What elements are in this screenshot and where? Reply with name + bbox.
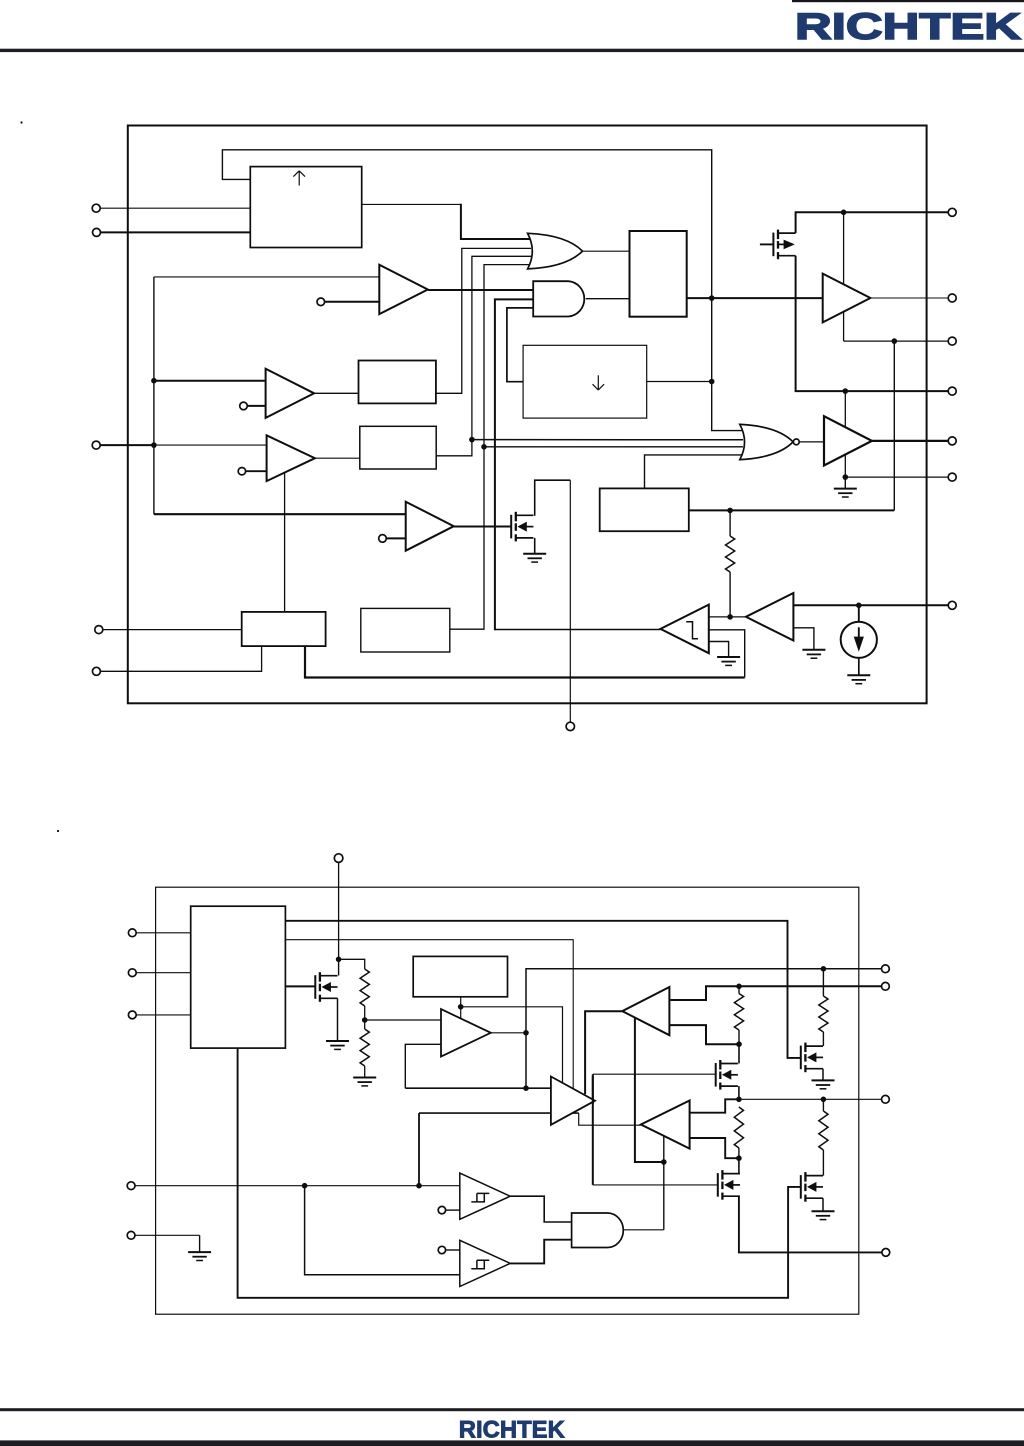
wire AND gate output to latch [586,298,630,300]
resistor R-OC [726,536,735,572]
wire high MOSFET gate lead [593,1073,716,1075]
wire Schmitt output to corner [495,629,661,631]
wire comparator3 to soft-start block [284,473,286,612]
ground current source [847,675,870,683]
node junction divider tap [362,1017,368,1023]
gate AND1 [533,281,584,316]
transistor Q2 bootstrap PMOS switch [773,230,795,260]
wire junction to comparator3 input [154,444,267,446]
wire OVP block output up to AND gate input 3 [507,308,533,382]
terminal bubble S2 inverting [438,1206,445,1213]
wire gate drive node vertical [592,1074,594,1185]
terminal bubble comparator U3 inverting input [238,468,245,475]
transistor Q4 high-side NMOS [716,1060,738,1090]
current source I1 [841,622,877,658]
wire schmitt2 output to AND2 [510,1240,571,1264]
stray mark [20,121,22,123]
wire driver return rail to PHASE terminal [796,256,953,391]
terminal PHASE right 4 [948,387,956,395]
wire control block thick rail to right gate [285,921,800,1058]
footer rule lower [0,1440,1024,1446]
ground Q6 source [822,1069,824,1081]
wire gate node over totem apex [592,1076,594,1104]
svg-text:RICHTEK: RICHTEK [795,5,1021,47]
wire VCC input to UVLO (upper) [100,207,250,209]
wire divider bottom to ground [364,1066,366,1078]
terminal BOOT right d2 1 [882,965,890,973]
wire H2 from node to NOR gate input [484,446,743,448]
terminal OCSET right 7 [948,601,956,609]
wire divider middle [364,1006,366,1029]
ground Q1 source [523,554,546,562]
node junction OCSET current source [856,603,862,609]
wire PWM input terminal line [135,1185,460,1187]
ground divider [353,1078,376,1086]
block OVP with falling arrow [523,345,647,418]
node junction LX [736,1097,742,1103]
ground Q7 source [822,1198,824,1211]
terminal left d2 2 [128,969,136,977]
node junction R4 bottom [736,1155,742,1161]
wire divider tap across [339,959,365,969]
wire opamp B1 output vertical to top rail [526,969,881,1088]
wire OR gate output to latch [583,250,630,252]
transistor Q5 low-side NMOS [718,1170,740,1200]
wire R5 to MOSFET drain [822,1032,824,1046]
block delay 1 [359,361,436,404]
schmitt trigger S3 [460,1240,510,1286]
wire receiver1 output to totem [585,1011,622,1094]
node junction comparator2 input [151,378,157,384]
comparator U4 soft-start [406,502,454,551]
terminal left d2 1 [128,929,136,937]
wire level MOSFET drain node [338,959,340,975]
wire input 2 to UVLO (lower) [101,231,251,233]
wire control inputs left 1 [136,932,191,934]
node junction comparator3 input [151,442,157,448]
transistor Q3 level NMOS [315,972,337,1002]
wire OC set resistor chain top [729,510,731,536]
wire comparator U4 inverting input [386,537,405,539]
wire receiver2 tap lower [690,1138,739,1158]
wire comparator3 output to delay2 [315,457,360,459]
wire bootstrap switch gate lead [760,243,774,245]
ground Schmitt [717,657,740,665]
wire R6 ends [822,1099,824,1111]
node junction VCC divider [336,957,342,963]
gate OR1 five-input [528,233,583,269]
comparator U3 [267,435,315,481]
wire S2 bubble stub [446,1209,460,1211]
wire ground stub down [199,1235,201,1252]
wire driver ground to PGND terminal [845,476,952,478]
wire comparator4 output to discharge MOSFET gate [454,526,511,528]
symbol hysteresis S3 [471,1260,489,1269]
wire delay2 output up to OR gate input 3 [436,256,531,456]
schmitt trigger S2 [460,1173,510,1219]
wire PWM latch output to high-side driver [687,297,823,299]
wire VCC rail to terminal [844,340,953,342]
symbol falling arrow in OVP block [593,375,605,390]
block oscillator [361,608,450,652]
terminal EN left 5 [92,667,100,675]
comparator U2 [266,369,315,418]
node junction H2 [481,444,487,450]
wire divider tap to opamp B1 input [365,1019,441,1021]
resistor R3 gate boost upper [734,994,743,1031]
node junction OVP line [709,379,715,385]
wire Schmitt ground stub [709,642,729,658]
wire comparator U1 inverting input [325,301,380,303]
wire driver ground stub [844,477,846,489]
wire receiver1 slope hang vertical [635,1018,664,1162]
terminal bubble comparator U1 inverting input [317,298,325,306]
wire node to ramp line [461,1007,563,1083]
wire low-side driver supply vertical [844,391,846,477]
block delay 2 [360,426,436,469]
wire control block to level MOSFET gate [285,985,315,987]
node junction H1 [469,437,475,443]
wire PWM down to schmitt2 input [305,1186,460,1275]
transistor Q1 soft-start discharge NMOS [511,512,533,542]
wire low MOSFET source to PGND rail [739,1196,882,1252]
terminal VCC top diagram 2 [334,854,343,863]
wire comparator U3 inverting input [246,470,267,472]
terminal bubble S3 inverting [438,1246,445,1253]
wire OC receiver ground stub [793,628,814,650]
comparator U1 [379,265,428,314]
wire OVP block output [647,381,712,383]
Richtek header logo bar [792,0,1024,2]
schmitt trigger S1 [661,605,709,654]
resistor R6 right lower [819,1111,828,1150]
terminal bubble comparator U2 inverting input [240,402,248,410]
wire AND2 output [623,1229,664,1231]
gate NOR1 [740,424,793,459]
stray mark 2 [57,830,59,832]
symbol hysteresis S2 [471,1193,489,1202]
terminal left d2 3 [128,1011,136,1019]
ground level MOSFET [326,1041,349,1049]
wire comparator4 input rail [154,513,406,515]
wire comparator2 non-inverting input [154,380,266,382]
wire FB input terminal to junction [100,444,154,446]
wire R4 ends [738,1148,740,1158]
node junction gate boost [661,1159,667,1165]
wire low-side driver output to LGATE terminal [872,440,952,442]
terminal PGND right 6 [948,473,956,481]
wire SS terminal input [103,629,242,631]
wire R3 ends [738,986,740,993]
wire receiver1 tap upper [669,986,881,1000]
terminal UGATE right 2 [948,294,956,302]
node junction right resistor top [821,966,827,972]
ground low-side driver [834,489,857,497]
block control logic [191,906,286,1048]
wire feedback line into totem driver [405,1087,551,1089]
wire driver supply loop left and BOOT rail [796,212,953,233]
wire R3 bottom to high MOSFET drain [738,1044,740,1063]
wire delay1 output up to OR gate input 2 [436,248,531,393]
terminal UGATE right d2 2 [882,982,890,990]
gate AND2 [572,1213,624,1248]
wire upper right resistor top [822,969,824,996]
receiver B3 high side [622,987,669,1035]
bubble NOR1 output [793,439,799,445]
receiver B4 low side [641,1101,690,1149]
driver A2 low-side [824,416,872,465]
wire opamp B1 feedback loop [405,1044,441,1088]
wire LX sense vertical [893,341,895,510]
wire OC block to NOR input 4 [645,455,744,489]
wire vertical sense bus left [153,277,155,514]
wire AND2 output vertical to receiver2 [663,1136,665,1230]
wire control block bottom bus to right gate [238,1048,801,1298]
terminal PWM left d2 4 [127,1182,135,1190]
resistor R4 gate boost lower [734,1107,743,1148]
flip-flop PWM latch [630,231,687,317]
node junction PWM to totem [416,1183,422,1189]
wire Schmitt input 2 from enable bus [709,630,745,678]
wire receiver2 tap upper [690,1099,739,1112]
wire receiver2 apex step [579,1113,641,1125]
wire resistor to OC comparator node [729,572,731,617]
terminal VCC left 1 [92,204,100,212]
wire BOOT node down to VCC rail [843,212,845,341]
wire totem input vertical to PWM node [418,1113,420,1186]
wire level MOSFET source to ground [337,998,339,1041]
node junction VCC rail [892,338,898,344]
symbol current source arrow [858,627,860,639]
symbol hysteresis S1 [686,622,698,639]
symbol rising arrow in UVLO block [293,171,305,186]
node junction boot resistor bottom [736,1041,742,1047]
terminal FB left 3 [92,441,100,449]
node junction PHASE rail [843,388,849,394]
wire schmitt1 output to AND2 [510,1196,571,1222]
wire SS pin vertical to bottom terminal [569,480,571,722]
wire comparator1 non-inverting input [154,276,379,278]
node junction LX resistor [821,1097,827,1103]
terminal PGND right d2 4 [882,1249,890,1257]
diagram 2 outer box [156,887,859,1314]
ground terminal [188,1252,211,1260]
resistor R2 divider lower [360,1029,369,1066]
block reference [413,956,507,996]
wire corner up to AND gate input 2 [495,299,533,630]
node junction driver ground [843,474,849,480]
wire current source top [858,605,860,622]
totem driver B2 [551,1077,595,1125]
svg-text:RICHTEK: RICHTEK [459,1416,566,1443]
driver A1 high-side [823,274,871,323]
header rule [0,49,1024,52]
wire comparator1 output to AND gate input 1 [428,289,533,291]
terminal bubble comparator U4 inverting input [379,535,387,543]
terminal LGATE right 5 [948,437,956,445]
diagram 1 outer box [128,126,927,704]
wire ground terminal stub [135,1234,200,1236]
wire top VCC terminal into box [338,862,340,959]
node junction OC comparator input [727,614,733,620]
wire OC block output to LX sense [689,509,895,511]
block overcurrent limit [600,488,689,531]
wire OSC output up to OR gate input 4 [450,265,531,630]
block UVLO (rising threshold) [250,167,361,248]
wire enable input to soft-start block [101,646,262,671]
wire discharge MOSFET source to ground [534,538,536,554]
terminal VCC right 3 [948,337,956,345]
footer rule upper [0,1408,1024,1411]
wire totem lower input line [419,1112,579,1114]
wire low MOSFET drain [738,1158,740,1173]
wire NOR output to low-side driver [799,441,824,443]
wire UVLO output [362,203,461,205]
buffer A3 OC receiver [746,593,794,641]
node junction PWM to schmitt2 [302,1183,308,1189]
wire high-side driver output to UGATE terminal [870,297,952,299]
terminal left 2 [93,228,101,236]
node junction reference stub [458,1004,464,1010]
wire control inputs left 2 [136,972,191,974]
wire current source to ground [858,658,860,676]
transistor Q6 right upper NMOS [801,1043,823,1073]
transistor Q7 right lower NMOS [801,1172,823,1202]
wire UVLO output corner to OR gate input 1 [461,204,531,239]
wire soft-start to enable bus [305,646,745,677]
resistor R5 right upper [819,996,828,1032]
node junction feedback [523,1085,529,1091]
node junction PWM to NOR [709,295,715,301]
wire discharge MOSFET drain to SS pin [535,480,571,516]
terminal PHASE right d2 3 [882,1095,890,1103]
node junction boot resistor top [736,984,742,990]
terminal BOOT right 1 [948,208,956,216]
wire control inputs left 3 [136,1014,191,1016]
wire LX rail to terminal [739,1098,881,1100]
wire OCSET terminal line [793,604,952,606]
wire H1 from node to NOR gate input [472,439,743,441]
wire opamp B1 output [491,1032,526,1034]
ground OC receiver [802,650,825,658]
wire high MOSFET source to LX [738,1086,740,1099]
terminal SS left 4 [95,626,103,634]
node junction OC resistor top [727,508,733,514]
node junction B1 output [523,1030,529,1036]
wire POR: UVLO left tap over top to right side down to NOR input 1 [222,150,743,431]
block soft-start [242,612,326,646]
wire S3 bubble stub [446,1249,460,1251]
resistor R1 divider upper [360,969,369,1006]
wire control block thin rail to totem input [285,940,573,1088]
node junction BOOT [841,210,847,216]
wire low MOSFET gate lead [593,1184,718,1186]
wire comparator U2 inverting input [247,405,265,407]
opamp B1 [441,1009,491,1057]
wire receiver1 tap lower [669,1025,739,1044]
terminal SS bottom [566,722,574,730]
wire Schmitt input 1 / OC node [709,616,746,618]
terminal GND left d2 5 [127,1231,135,1239]
wire reference block stub to opamp B1 [460,997,462,1019]
wire comparator2 output to delay1 [314,392,358,394]
